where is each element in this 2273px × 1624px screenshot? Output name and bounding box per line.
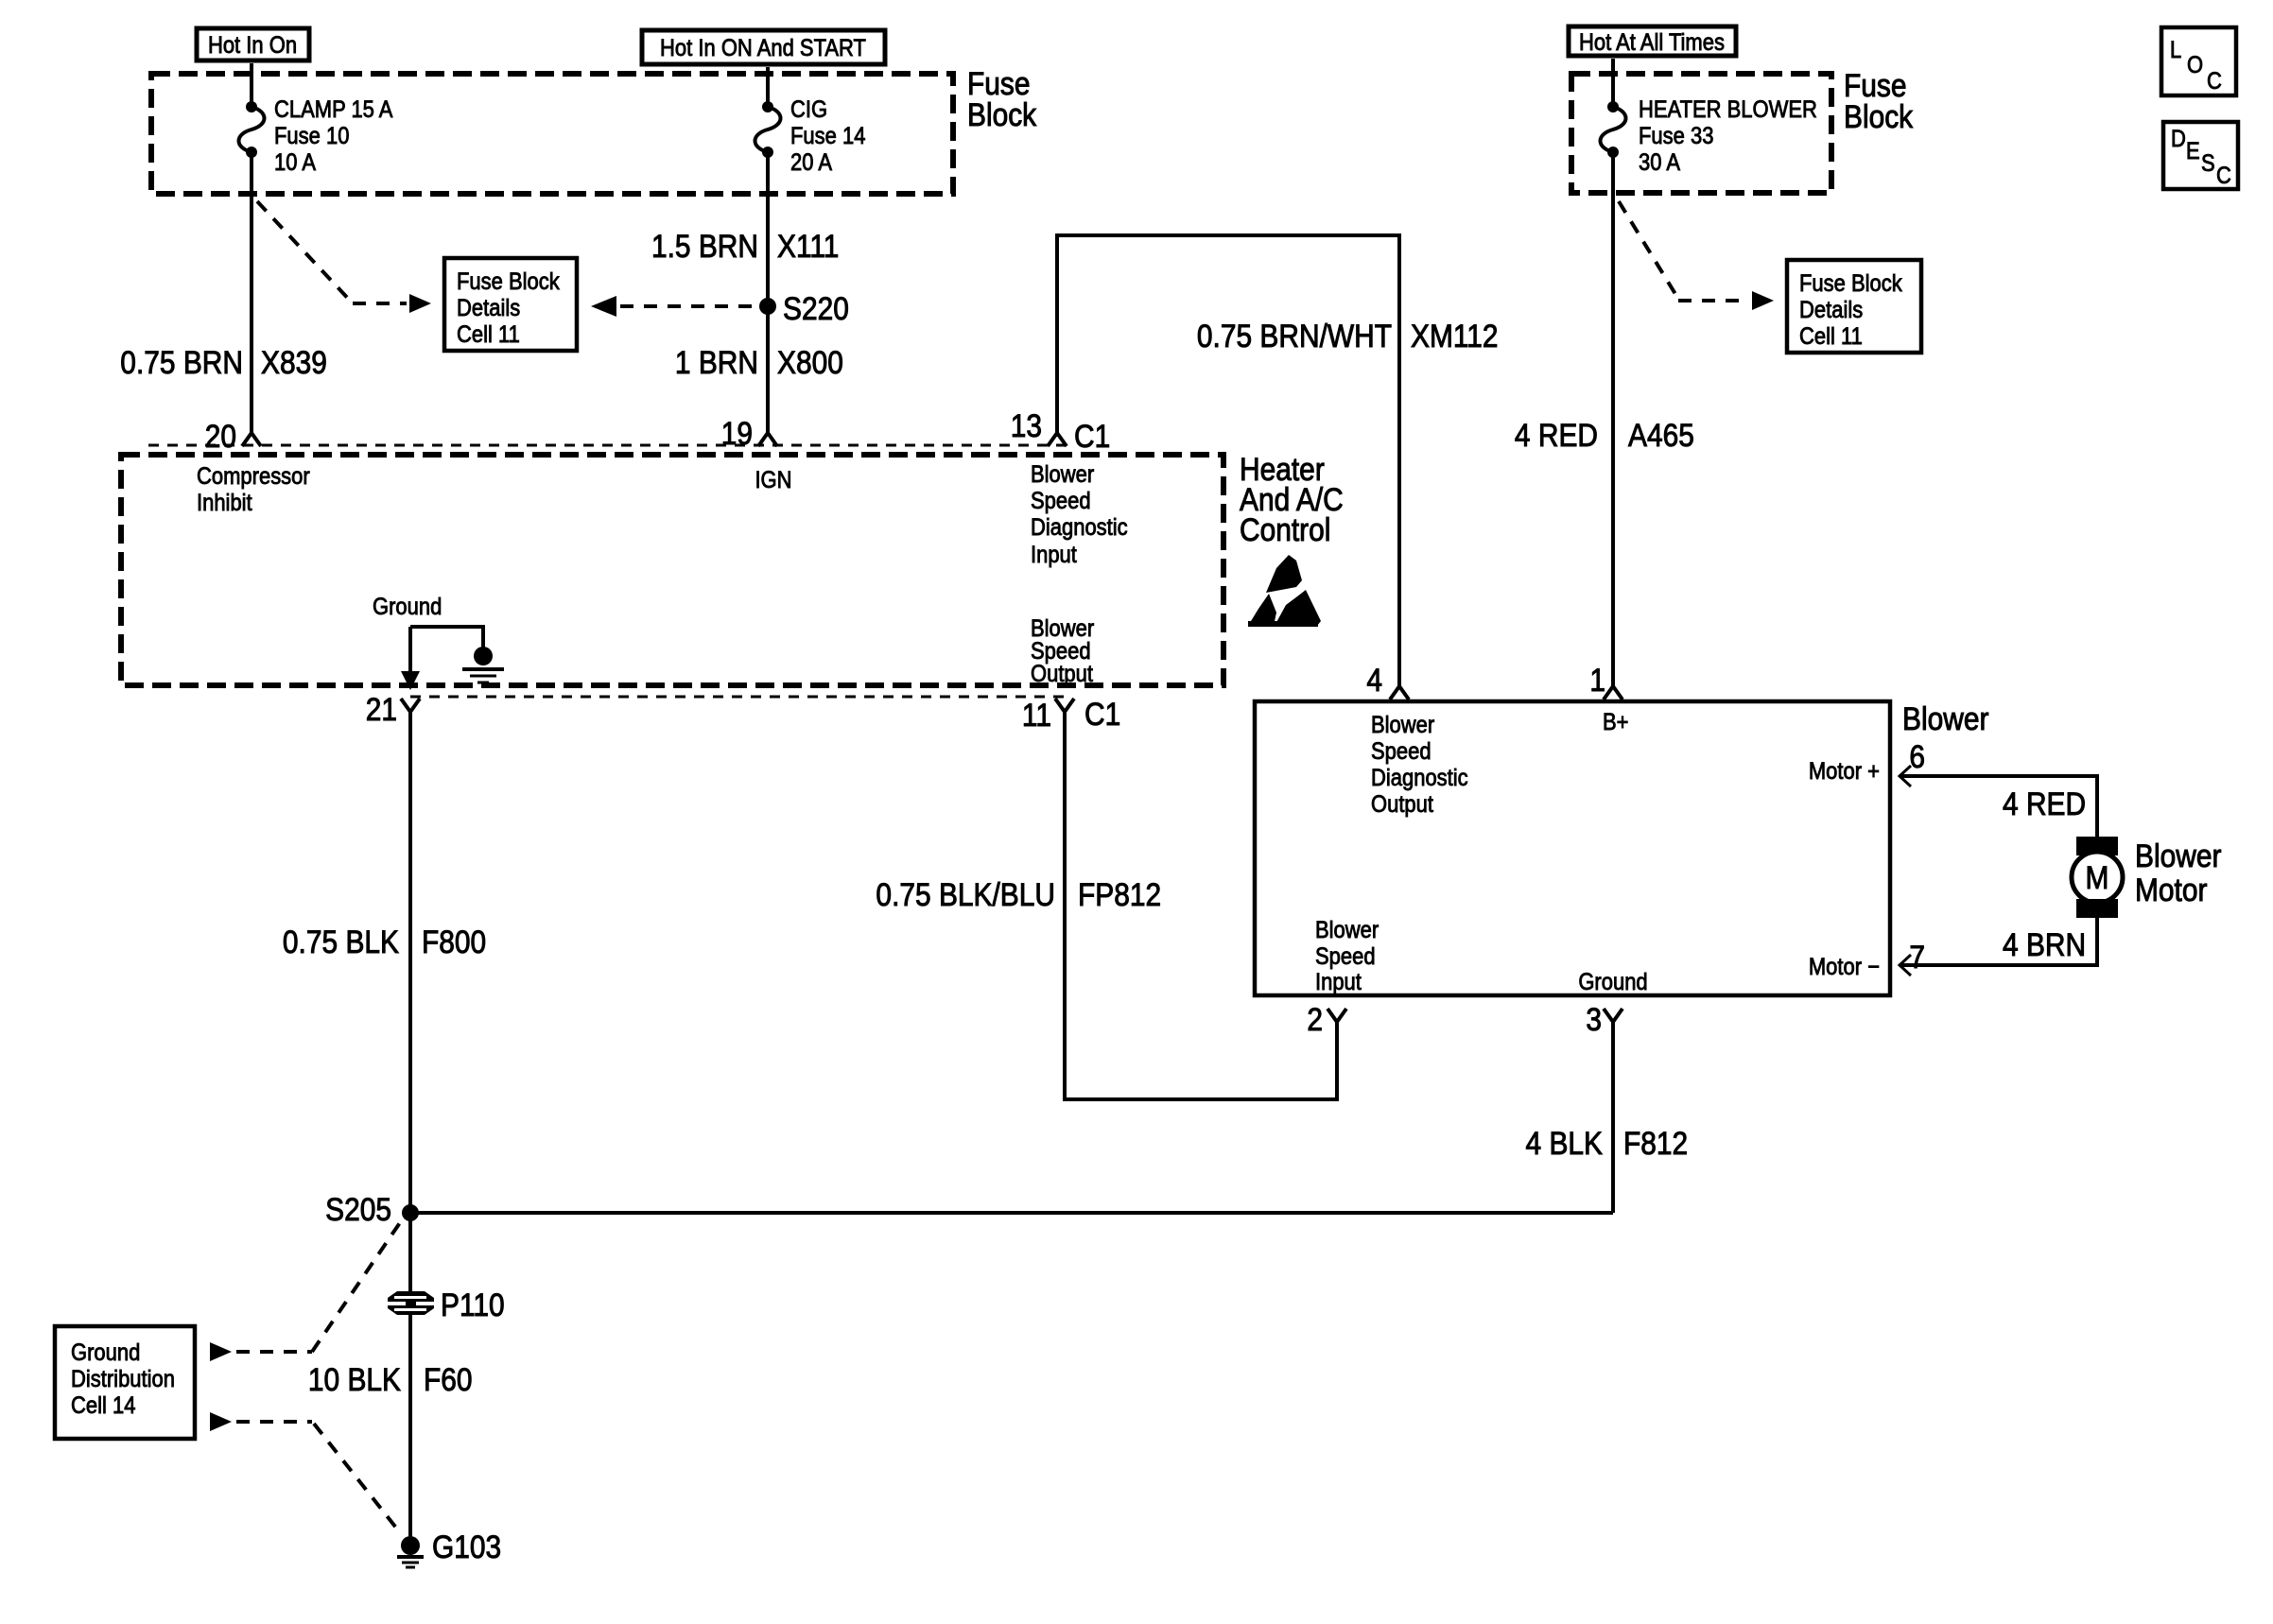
svg-text:Motor +: Motor + [1809,758,1880,785]
svg-text:F800: F800 [422,924,486,959]
grommet P110 [388,1291,434,1315]
svg-text:F812: F812 [1623,1125,1688,1161]
svg-text:Output: Output [1031,661,1093,687]
svg-text:E: E [2186,138,2200,164]
svg-text:Fuse Block: Fuse Block [457,268,560,295]
svg-text:19: 19 [721,415,753,451]
svg-text:Input: Input [1315,969,1362,995]
svg-text:1.5 BRN: 1.5 BRN [651,228,758,264]
svg-text:CIG: CIG [790,96,827,123]
svg-text:X800: X800 [777,344,843,380]
svg-text:20 A: 20 A [790,149,832,176]
svg-text:0.75 BLK/BLU: 0.75 BLK/BLU [876,876,1055,912]
splice S220 [759,298,776,315]
svg-text:Cell 14: Cell 14 [71,1392,135,1419]
svg-text:CLAMP 15 A: CLAMP 15 A [274,96,393,123]
svg-text:F60: F60 [424,1361,473,1397]
svg-text:4: 4 [1366,662,1382,698]
svg-text:Cell 11: Cell 11 [1799,323,1863,350]
node Hot In On [197,28,309,60]
heater and A/C control dashed box U1 [121,455,1223,685]
blower motor M1 [2076,837,2118,855]
svg-text:X839: X839 [261,344,327,380]
svg-text:Output: Output [1371,791,1433,818]
svg-text:Motor −: Motor − [1809,954,1880,980]
wire XM112 (0.75 BRN/WHT) from C1 pin 13 up and over to blower pin 4 [1057,235,1399,683]
svg-text:4 RED: 4 RED [1515,417,1598,453]
connector C1 boundary (bottom, pins 21/11) [410,696,1065,699]
dashed reference arrow to G103 [210,1412,232,1431]
svg-text:Input: Input [1031,542,1077,568]
svg-text:0.75 BRN: 0.75 BRN [120,344,243,380]
svg-text:0.75 BLK: 0.75 BLK [283,924,399,959]
svg-text:Fuse 10: Fuse 10 [274,123,349,149]
wire F812 (4 BLK) from pin 3 to S205 [1611,1034,1615,1213]
svg-text:0.75 BRN/WHT: 0.75 BRN/WHT [1197,318,1392,354]
LOC legend box [2161,27,2236,95]
svg-text:4 BRN: 4 BRN [2003,926,2086,962]
svg-text:Blower: Blower [2135,838,2222,873]
svg-text:Details: Details [457,295,520,321]
svg-text:Details: Details [1799,297,1863,323]
connector C1 boundary (top, pins 20/19/13) [148,444,1067,447]
wire X839 (0.75 BRN) [250,152,253,433]
svg-text:G103: G103 [432,1529,501,1564]
svg-text:7: 7 [1909,939,1925,975]
svg-text:30 A: 30 A [1639,149,1680,176]
svg-text:Speed: Speed [1315,943,1376,970]
svg-text:Motor: Motor [2135,872,2208,907]
wire 4 BRN from blower motor to pin 7 [1900,918,2097,965]
svg-text:Blower: Blower [1371,712,1434,738]
svg-text:20: 20 [205,418,236,454]
fuse block dashed box (left, contains CLAMP and CIG fuses) [151,74,953,194]
svg-text:B+: B+ [1603,709,1629,735]
svg-text:11: 11 [1022,697,1051,733]
node Hot In ON And START [642,30,885,64]
svg-text:Speed: Speed [1031,488,1091,514]
svg-text:Ground: Ground [71,1339,140,1366]
svg-text:S205: S205 [325,1191,391,1227]
svg-text:S: S [2201,150,2215,177]
svg-text:1 BRN: 1 BRN [675,344,758,380]
svg-text:C1: C1 [1074,418,1110,454]
blower module box U2 [1255,701,1890,995]
svg-text:Block: Block [967,96,1037,132]
svg-text:Diagnostic: Diagnostic [1371,765,1468,791]
svg-text:C1: C1 [1084,696,1120,732]
wire ground bus from S205 to pin 3 [410,1211,1613,1215]
svg-text:Control: Control [1240,511,1330,547]
fuse CIG Fuse 14 [766,67,770,107]
wire A465 (4 RED) from fuse 33 to blower pin 1 [1611,152,1615,683]
svg-text:HEATER BLOWER: HEATER BLOWER [1639,96,1817,123]
wire X111 (1.5 BRN) / X800 (1 BRN) [766,152,770,433]
svg-text:Hot In ON And START: Hot In ON And START [660,35,866,61]
dashed reference arrow from S220 to details box [620,304,752,308]
svg-text:XM112: XM112 [1411,318,1499,354]
ESD sensitive device symbol [1266,555,1302,593]
svg-text:C: C [2216,163,2231,189]
svg-text:Fuse 33: Fuse 33 [1639,123,1713,149]
fuse HEATER BLOWER Fuse 33 [1611,59,1615,107]
svg-text:2: 2 [1307,1001,1323,1037]
svg-text:Blower: Blower [1031,461,1094,488]
svg-text:M: M [2086,859,2109,895]
svg-text:13: 13 [1011,407,1042,443]
svg-text:Inhibit: Inhibit [197,490,252,516]
DESC legend box [2163,122,2238,189]
reference box Fuse Block Details Cell 11 (left) [444,258,577,351]
reference box Fuse Block Details Cell 11 (right) [1787,260,1921,353]
wire FP812 (0.75 BLK/BLU) from pin 11 to blower pin 2 [1065,723,1337,1099]
svg-text:Distribution: Distribution [71,1366,175,1392]
wire F800 (0.75 BLK) from pin 21 down to S205 [408,723,412,1293]
svg-text:21: 21 [366,691,397,727]
svg-text:Hot At All Times: Hot At All Times [1579,29,1725,56]
svg-text:P110: P110 [441,1287,505,1322]
dashed reference arrow from HEATER BLOWER fuse to details box [1619,201,1678,299]
svg-text:FP812: FP812 [1078,876,1161,912]
svg-text:Blower: Blower [1315,917,1379,943]
svg-text:C: C [2207,68,2222,95]
svg-text:4 RED: 4 RED [2003,786,2086,821]
svg-text:4 BLK: 4 BLK [1526,1125,1603,1161]
dashed reference arrow from CLAMP fuse to details box [257,201,353,303]
fuse block dashed box (right, HEATER BLOWER fuse) [1571,74,1831,193]
ground G103 [401,1536,420,1555]
svg-text:Cell 11: Cell 11 [457,321,520,348]
svg-text:Compressor: Compressor [197,463,310,490]
svg-text:A465: A465 [1628,417,1694,453]
svg-text:X111: X111 [777,228,839,264]
internal ground arrow to pin 21 [408,627,412,673]
wire 4 RED to blower motor [1900,776,2097,838]
svg-text:L: L [2170,37,2181,63]
splice S205 [402,1204,419,1221]
svg-text:Blower: Blower [1902,700,1989,736]
svg-text:Ground: Ground [1578,969,1647,995]
svg-text:IGN: IGN [755,467,791,493]
svg-text:Hot In On: Hot In On [208,32,297,59]
svg-text:S220: S220 [783,290,849,326]
svg-text:Fuse Block: Fuse Block [1799,270,1902,297]
dashed reference arrow to S205 [210,1342,232,1361]
reference box Ground Distribution Cell 14 [55,1326,195,1439]
node Hot At All Times [1569,26,1736,56]
svg-text:1: 1 [1589,662,1605,698]
svg-text:O: O [2187,52,2203,78]
wire F60 (10 BLK) from P110 to G103 [408,1315,412,1537]
svg-text:6: 6 [1909,738,1925,774]
svg-text:Ground: Ground [373,594,442,620]
svg-text:Speed: Speed [1371,738,1431,765]
svg-text:10 BLK: 10 BLK [308,1361,401,1397]
svg-text:Fuse 14: Fuse 14 [790,123,865,149]
svg-text:Diagnostic: Diagnostic [1031,514,1128,541]
svg-text:D: D [2171,126,2186,152]
svg-text:10 A: 10 A [274,149,316,176]
svg-text:Block: Block [1844,98,1914,134]
svg-text:3: 3 [1586,1001,1602,1037]
fuse CLAMP 15 A Fuse 10 [250,63,253,107]
